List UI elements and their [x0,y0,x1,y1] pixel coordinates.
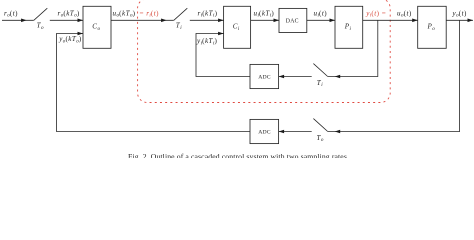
svg-text:Fig. 2. Outline of a cascade: Fig. 2. Outline of a cascaded control sy… [128,152,347,158]
arrowhead at sampler Ti [161,19,167,23]
arrowhead into sampler To [21,19,27,23]
svg-text:uo(kTo): uo(kTo) [113,9,136,18]
wire y_i(t) = u_o(t) from Pi to Po [363,19,418,21]
svg-text:uo(t): uo(t) [397,9,412,18]
svg-text:ro(t): ro(t) [4,9,18,18]
sampler To bottom lever [313,119,327,132]
dashed red boundary box (inner loop) [138,0,391,103]
block Po [418,6,447,48]
wire outer feedback tap down from y_o [328,20,460,131]
wire u_i(kT_i) from Ci to DAC [251,19,279,21]
wire r_o(kT_o) [50,19,83,21]
wire inner feedback tap down from y_i [328,20,378,76]
wire u_o(kT_o) from Co to sampler Ti [111,19,174,21]
svg-text:DAC: DAC [286,18,299,24]
block ADC outer [250,119,279,143]
svg-text:ADC: ADC [258,130,271,136]
svg-text:yi(t) =: yi(t) = [365,9,386,18]
block Pi [335,6,363,48]
block Ci [224,6,251,48]
svg-text:ui(t): ui(t) [314,9,328,18]
wire u_i(t) from DAC to Pi [307,19,335,21]
wire r_i(kT_i) [190,19,224,21]
block ADC inner [250,64,279,88]
svg-text:yo(t): yo(t) [452,9,468,18]
svg-text:ri(kTi): ri(kTi) [198,9,218,18]
arrowhead into ADC inner [279,75,285,79]
arrowhead into DAC [274,19,280,23]
wire ADC outer to Co feedback input y_o(kT_o) [57,34,251,132]
arrowhead into Ci [218,19,224,23]
svg-text:yi(kTi): yi(kTi) [196,37,217,46]
svg-text:ui(kTi): ui(kTi) [254,9,275,18]
arrowhead into sampler To (bottom) [335,130,341,134]
wire sampler to ADC (inner) [279,76,312,78]
arrowhead into Po [412,19,418,23]
block DAC [279,8,307,32]
sampler To lever [34,8,48,20]
arrowhead into Co (feedback) [78,32,84,36]
svg-text:= ri(t): = ri(t) [140,9,160,18]
arrowhead into sampler Ti (bottom) [335,75,341,79]
wire input r_o(t) [2,19,34,21]
wire sampler to ADC (outer) [279,131,312,133]
svg-text:yo(kTo): yo(kTo) [58,35,82,44]
arrowhead output [468,19,474,23]
arrowhead into Ci (feedback) [218,32,224,36]
wire ADC inner to Ci feedback input y_i(kT_i) [196,34,250,77]
block Co [83,6,111,48]
arrowhead into Co [78,19,84,23]
arrowhead into Pi [330,19,336,23]
arrowhead into ADC outer [279,130,285,134]
wire y_o(t) output [446,19,473,21]
sampler Ti bottom lever [313,64,327,77]
svg-text:ADC: ADC [258,75,271,81]
sampler Ti lever [174,8,188,20]
